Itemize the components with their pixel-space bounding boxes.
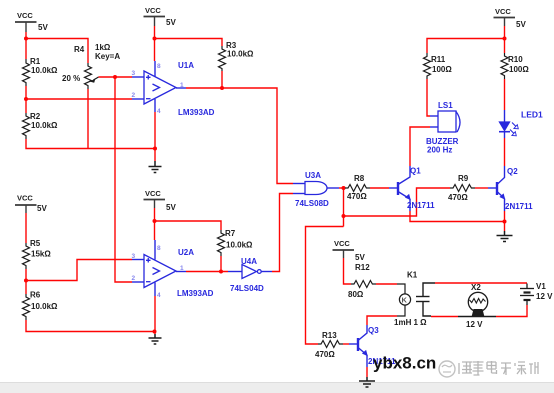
node junction R5-R6 [24,279,28,283]
wire Q3 emitter to ground [366,367,368,377]
svg-text:LM393AD: LM393AD [178,108,215,117]
wire buzzer top to R11 [427,79,430,116]
svg-text:74LS08D: 74LS08D [295,199,329,208]
svg-text:15kΩ: 15kΩ [31,250,51,259]
wire R12 to relay coil [376,283,397,285]
svg-text:R8: R8 [354,174,365,183]
svg-text:K1: K1 [407,271,418,280]
ground (Q3) [359,377,375,387]
svg-text:1: 1 [180,82,184,89]
svg-text:100Ω: 100Ω [509,65,529,74]
wire VCC3 node to R7 top [155,221,222,230]
wire R1 bottom to R2 top [25,86,27,113]
svg-text:74LS04D: 74LS04D [230,284,264,293]
svg-text:10.0kΩ: 10.0kΩ [31,121,58,130]
svg-text:R12: R12 [355,263,370,272]
svg-text:U4A: U4A [241,257,257,266]
power VCC (top right) [494,18,516,27]
wire VCC4 to R5 [25,213,27,243]
wire R11 top to VCC5 node [427,39,505,54]
svg-text:470Ω: 470Ω [448,193,468,202]
wire R6 bottom to ground rail 2 [26,320,155,332]
wire U1A output to gate input 1 [186,88,293,184]
node junction R7-output [219,270,223,274]
wire R1-R2 node to U1A pin2 [26,98,132,100]
resistor R10 [501,53,508,79]
op-amp U1A [132,61,186,112]
wire U2A output to U4A input [186,271,228,273]
svg-text:3: 3 [132,70,136,77]
wire U2A pin4 to ground [154,296,156,334]
wire R7 bottom to U2A output [220,256,222,272]
node junction VCC2 [153,37,157,41]
svg-text:ybx8.cn: ybx8.cn [373,354,436,373]
resistor R12 [351,281,376,288]
wire R8 to Q1 base [370,187,389,189]
relay contact K1 [416,283,435,316]
lamp X2 [458,292,496,316]
svg-text:R9: R9 [458,174,469,183]
svg-text:Q1: Q1 [410,167,421,176]
svg-text:R2: R2 [30,112,41,121]
wire R4 wiper to U1A pin3 [99,76,133,78]
svg-text:12 V: 12 V [536,292,553,301]
wire wiper down to U2A pin2 [115,77,132,282]
svg-text:R11: R11 [431,55,446,64]
svg-text:R7: R7 [225,229,236,238]
node junction emitter line [342,214,346,218]
node junction gate output [342,186,346,190]
wire contact top to lamp/battery top [435,282,527,284]
resistor R8 [345,185,370,192]
resistor R1 [23,59,30,86]
inverter U4A [228,265,272,279]
wire VCC2 down to pin8 [154,26,156,61]
wire R3 bottom to U1A output [221,71,223,88]
svg-text:2: 2 [132,275,136,282]
svg-text:LM393AD: LM393AD [177,289,214,298]
svg-text:Q3: Q3 [368,326,379,335]
watermark CJK text [459,361,538,375]
node junction ground rail 2 [153,330,157,334]
svg-text:R5: R5 [30,239,41,248]
svg-text:4: 4 [157,292,161,299]
svg-text:R13: R13 [322,331,337,340]
svg-text:R10: R10 [508,55,523,64]
svg-text:5V: 5V [355,253,365,262]
ground (U2A) [149,334,162,344]
wire VCC6 down to R12 [344,258,352,284]
bottom band [0,382,554,393]
wire Q1 collector to buzzer [410,127,430,166]
svg-text:U3A: U3A [305,171,321,180]
svg-text:1mH: 1mH [394,318,412,327]
ground (Q2) [497,231,513,242]
resistor R3 [219,46,226,71]
resistor R2 [23,113,30,139]
wire U4A output to gate input 2 [272,194,293,272]
svg-text:R4: R4 [74,45,85,54]
transistor Q2 [488,166,505,211]
wire LED to Q2 collector [504,138,506,166]
ground (U1A) [149,161,162,173]
wire VCC1 stub to node [25,32,27,39]
wire VCC3 down to pin8 [154,208,156,240]
pin numbers [132,63,185,299]
wire lamp to battery bottom [496,305,527,317]
svg-text:U2A: U2A [178,248,194,257]
svg-text:R6: R6 [30,291,41,300]
svg-text:1: 1 [180,265,184,272]
wire Q1 emitter to ground rail [410,211,505,222]
wire R10 bottom to LED [504,79,506,110]
wire gate net down to R13 [306,227,344,345]
svg-text:2N1711: 2N1711 [407,201,435,210]
svg-text:Key=A: Key=A [95,52,120,61]
power VCC (divider 2) [15,205,37,213]
svg-text:8: 8 [157,63,161,70]
wire R5-R6 node to U2A pin3 [26,260,132,281]
svg-text:2: 2 [132,92,136,99]
node junction VCC5 [503,37,507,41]
svg-text:U1A: U1A [178,61,194,70]
svg-text:4: 4 [157,108,161,115]
svg-text:200 Hz: 200 Hz [427,146,452,155]
wire Q2 emitter to ground [504,211,506,231]
wire U1A pin4 to ground [154,112,156,161]
resistor R13 [318,341,343,348]
svg-text:1kΩ: 1kΩ [95,43,111,52]
svg-text:5V: 5V [37,204,47,213]
svg-text:10.0kΩ: 10.0kΩ [31,66,58,75]
svg-text:R1: R1 [30,57,41,66]
svg-text:80Ω: 80Ω [348,290,364,299]
svg-text:LS1: LS1 [438,101,453,110]
svg-text:VCC: VCC [17,11,33,20]
AND gate U3A [293,182,339,195]
svg-text:V1: V1 [536,282,546,291]
svg-text:2N1711: 2N1711 [505,202,533,211]
svg-text:8: 8 [157,245,161,252]
wire base net to R9 [344,188,451,216]
svg-text:VCC: VCC [334,239,350,248]
node junction Q2 emitter [503,220,507,224]
transistor Q3 [349,325,367,367]
battery V1 [520,284,534,306]
svg-text:100Ω: 100Ω [432,65,452,74]
LED LED1 [499,110,517,138]
wire gate output down [343,188,345,227]
resistor R7 [218,230,225,256]
wire VCC2 node to R3 top [155,39,223,47]
svg-text:5V: 5V [166,203,176,212]
svg-text:VCC: VCC [17,194,33,203]
wire R9 to Q2 base [475,187,488,189]
svg-text:VCC: VCC [495,7,511,16]
resistor R9 [450,185,475,192]
power VCC (U2A supply) [144,200,166,209]
svg-text:VCC: VCC [145,6,161,15]
wire VCC5 down to R10 [504,26,506,53]
power VCC (relay supply) [333,250,355,258]
node junction ground rail [153,147,157,151]
svg-text:3: 3 [132,253,136,260]
svg-text:10.0kΩ: 10.0kΩ [227,50,254,59]
wire R2 bottom to ground rail [26,139,154,149]
svg-text:5V: 5V [516,20,526,29]
svg-text:1 Ω: 1 Ω [414,318,428,327]
svg-text:470Ω: 470Ω [315,350,335,359]
watermark logo circle [439,361,455,377]
svg-text:K: K [402,296,408,305]
node junction VCC3 [153,219,157,223]
svg-text:470Ω: 470Ω [347,192,367,201]
node junction R1-R2 [24,97,28,101]
svg-text:10.0kΩ: 10.0kΩ [31,302,58,311]
op-amp U2A [132,240,186,296]
svg-text:VCC: VCC [145,189,161,198]
svg-text:12 V: 12 V [466,320,483,329]
text labels: blue device names [177,61,543,366]
resistor R11 [424,53,431,79]
transistor Q1 [389,166,410,211]
svg-text:5V: 5V [38,23,48,32]
svg-text:Q2: Q2 [507,167,518,176]
wire R13 to Q3 base [343,343,349,345]
svg-text:X2: X2 [471,283,481,292]
node junction VCC1 [24,37,28,41]
node junction R3-output [220,86,224,90]
wire U3A output to R8 node [339,187,345,189]
wire contact bottom to lamp [431,316,458,318]
relay coil K1 [397,284,411,316]
svg-text:20 %: 20 % [62,74,80,83]
power VCC (top-left) [15,22,37,32]
wire VCC node to R1 top [25,39,27,60]
node junction wiper [113,75,117,79]
power VCC (U1A supply) [144,17,166,27]
wire R5 bottom to node [25,269,27,294]
svg-text:5V: 5V [166,18,176,27]
wire coil bottom to Q3 collector [367,316,397,325]
wire VCC node to R4 top [26,39,88,64]
potentiometer R4 [85,63,99,89]
wire R4 bottom to ground rail [87,89,89,149]
svg-text:LED1: LED1 [521,110,543,120]
buzzer LS1 [430,111,460,132]
resistor R5 [23,243,30,269]
svg-text:10.0kΩ: 10.0kΩ [226,241,253,250]
resistor R6 [23,294,30,320]
